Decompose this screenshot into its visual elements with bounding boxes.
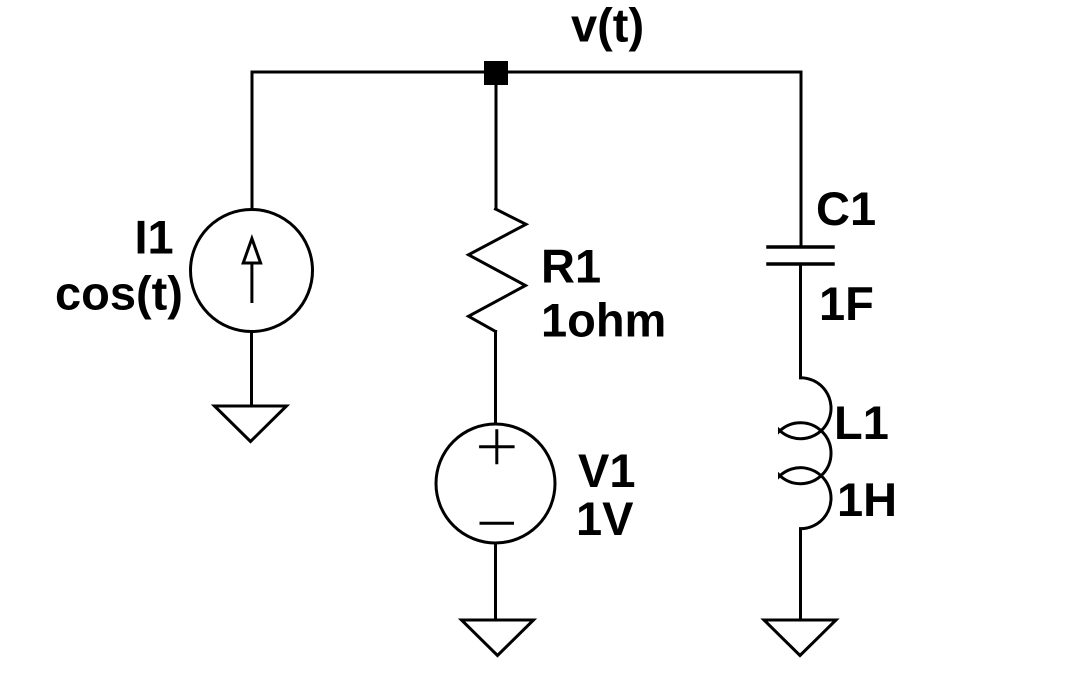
svg-text:V1: V1: [578, 444, 636, 497]
capacitor C1 top plate: [768, 245, 833, 249]
wire R1 to V1: [494, 332, 497, 425]
wire node to R1: [495, 85, 498, 209]
wire right vertical to C1: [800, 72, 803, 247]
svg-text:L1: L1: [834, 396, 889, 449]
ground right: [764, 620, 836, 656]
svg-text:1H: 1H: [837, 473, 897, 526]
inductor L1 coil: [780, 378, 832, 529]
current source I1 arrowhead: [243, 239, 260, 264]
svg-text:1F: 1F: [819, 277, 874, 330]
resistor R1 zigzag: [469, 209, 527, 332]
capacitor C1 bottom plate: [768, 262, 833, 266]
wire I1 to ground: [250, 332, 253, 407]
wire V1 to ground: [494, 543, 497, 620]
svg-text:cos(t): cos(t): [55, 267, 183, 320]
voltage source V1 minus sign: [481, 522, 513, 525]
svg-text:C1: C1: [816, 182, 876, 235]
voltage source V1 plus sign: [481, 431, 513, 463]
svg-text:1ohm: 1ohm: [541, 294, 666, 347]
svg-text:R1: R1: [541, 239, 601, 292]
node v(t) junction square: [484, 61, 508, 85]
wire left vertical to I1: [251, 72, 254, 209]
voltage source V1 circle: [436, 424, 555, 543]
wire C1 to L1: [799, 264, 802, 378]
svg-text:v(t): v(t): [571, 0, 644, 52]
svg-text:1V: 1V: [576, 492, 634, 545]
ground left: [215, 406, 287, 442]
current source I1 circle: [191, 210, 313, 332]
wire L1 to ground: [799, 529, 802, 620]
wire top horizontal net v(t): [252, 71, 801, 74]
ground middle: [462, 620, 534, 656]
current source I1 arrow shaft: [250, 263, 253, 302]
svg-text:I1: I1: [135, 211, 174, 264]
